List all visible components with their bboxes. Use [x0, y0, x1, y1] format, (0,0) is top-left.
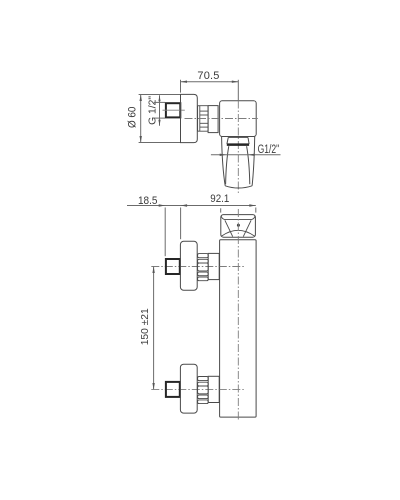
G1/2" leader line with arrows (top view)	[211, 154, 281, 156]
lower union nut bands	[198, 377, 209, 404]
lower inlet flange	[180, 364, 197, 413]
union nut (top view)	[198, 106, 209, 132]
wall port G1/2 stub (top view, thick)	[166, 103, 180, 117]
dimension G 1/2" line with arrows	[154, 95, 165, 126]
dimension G 1/2" text (rotated)	[147, 95, 158, 124]
lower tailpiece cylinder	[208, 376, 219, 402]
lower inlet centerline	[151, 388, 244, 390]
handle cap trapezoid (top view)	[227, 137, 249, 144]
handle cap (front view)	[221, 215, 256, 238]
port centerline (top view)	[163, 109, 185, 111]
upper inlet stub (thick)	[166, 259, 180, 274]
cap bottom arc	[222, 230, 255, 236]
G1/2" label text	[258, 144, 280, 156]
dimension 150 ±21 line with arrows	[152, 267, 154, 390]
cap left diagonal	[225, 220, 233, 236]
svg-text:70.5: 70.5	[197, 70, 219, 82]
dimension 18.5 text	[138, 195, 158, 207]
upper union nut bands	[198, 254, 209, 281]
body slab (front view)	[220, 240, 257, 417]
slab vertical centerline (front view)	[237, 209, 239, 420]
handle outline (top view)	[222, 137, 255, 188]
svg-text:G1/2": G1/2"	[258, 144, 280, 156]
upper inlet flange	[180, 241, 197, 290]
body horizontal centerline (top view)	[185, 118, 258, 120]
upper tailpiece cylinder	[208, 253, 219, 279]
body vertical centerline (top view)	[237, 80, 239, 101]
dimension Ø 60 text (rotated)	[127, 107, 139, 129]
dimension line 18.5 / 92.1 with arrows	[127, 204, 256, 256]
dimension 92.1 text	[210, 193, 229, 205]
lower inlet stub (thick)	[166, 382, 180, 397]
svg-text:Ø 60: Ø 60	[127, 107, 139, 129]
cap inner top edge	[221, 216, 255, 219]
svg-text:G 1/2": G 1/2"	[147, 95, 158, 124]
valve body (top view)	[220, 101, 257, 137]
dimension Ø 60 line with arrows	[139, 95, 181, 143]
dimension 70.5 text	[197, 70, 219, 82]
dimension 150 ±21 text (rotated)	[139, 308, 151, 345]
dimension 70.5 line with arrows	[181, 80, 239, 93]
upper inlet centerline	[151, 266, 244, 268]
handle inner curves (top view)	[226, 146, 250, 184]
cap center dot	[237, 224, 240, 227]
handle collar thick band (top view)	[227, 143, 249, 146]
wall flange / escutcheon (top view)	[181, 94, 198, 142]
union tailpiece cylinder (top view)	[208, 106, 218, 133]
cap right diagonal	[243, 220, 251, 236]
svg-text:150 ±21: 150 ±21	[139, 308, 151, 345]
svg-text:92.1: 92.1	[210, 193, 229, 205]
